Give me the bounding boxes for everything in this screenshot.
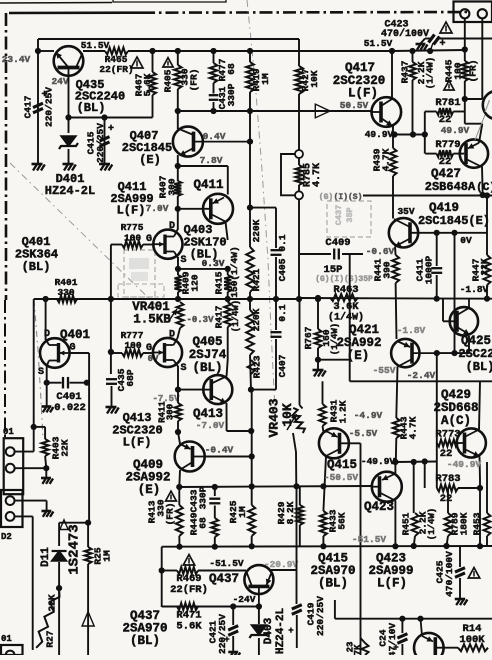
capacitor C417 <box>37 51 39 163</box>
transistor Q405 JFET <box>153 338 182 367</box>
svg-text:(FR): (FR) <box>468 60 479 83</box>
svg-text:220/25V: 220/25V <box>315 596 326 636</box>
svg-text:24V: 24V <box>51 76 68 87</box>
capacitor C24 <box>401 619 403 633</box>
svg-text:Q421: Q421 <box>349 323 379 337</box>
resistor R413 330 (FR) <box>178 487 180 505</box>
svg-text:22K: 22K <box>60 439 71 456</box>
svg-text:4.7K: 4.7K <box>381 148 392 171</box>
resistor R789 180K <box>447 490 449 513</box>
svg-text:(FR): (FR) <box>165 503 176 526</box>
warning triangle C423 <box>440 22 452 33</box>
capacitor C433 330P + R449 68 <box>214 487 216 496</box>
wire rail y462 <box>395 461 436 464</box>
resistor R471 5.6K <box>177 603 198 610</box>
warning triangle C425 <box>468 568 479 578</box>
wire Q401 source down <box>46 365 48 383</box>
svg-text:470/100V: 470/100V <box>444 551 455 597</box>
svg-text:-5.5V: -5.5V <box>349 428 378 439</box>
svg-text:Q437: Q437 <box>209 572 239 586</box>
svg-text:D: D <box>44 329 50 340</box>
svg-text:2SC1845(E): 2SC1845(E) <box>418 214 490 228</box>
warning triangle R413 <box>166 491 177 501</box>
ghost dashed box left <box>124 250 155 297</box>
resistor R447 22K <box>486 196 488 256</box>
wire Q403 source down <box>177 257 179 269</box>
svg-text:0.1: 0.1 <box>277 234 288 251</box>
node Q435 collector <box>65 114 71 120</box>
svg-text:49.9V: 49.9V <box>365 129 394 140</box>
svg-text:HZ24-2L: HZ24-2L <box>45 184 95 198</box>
svg-text:Q413: Q413 <box>193 407 223 421</box>
svg-text:-0.6V: -0.6V <box>366 246 395 257</box>
svg-text:R27: R27 <box>45 630 56 647</box>
wire rail y546 <box>162 545 492 548</box>
wire Q415 base col down <box>360 443 362 655</box>
connector box B <box>1 490 23 527</box>
svg-text:Q419: Q419 <box>429 201 459 215</box>
resistor R445 100 <box>464 50 466 62</box>
wire pin2 down <box>481 18 483 99</box>
svg-text:Q401: Q401 <box>60 328 90 342</box>
resistor R403 22K <box>34 426 45 428</box>
svg-text:1M: 1M <box>102 550 113 562</box>
warning triangle R445 <box>444 81 454 90</box>
svg-text:1.5KB: 1.5KB <box>133 313 171 327</box>
svg-text:D2: D2 <box>1 532 12 542</box>
svg-text:330P: 330P <box>226 83 237 106</box>
svg-text:23.4V: 23.4V <box>2 54 31 65</box>
transistor Q425 <box>450 307 478 335</box>
resistor R465 <box>105 48 128 55</box>
potentiometer VR403 <box>290 407 306 435</box>
svg-text:+: + <box>439 39 445 50</box>
ground R767 <box>313 369 324 372</box>
capacitor C401 0.022 <box>47 382 62 384</box>
svg-text:L(F): L(F) <box>117 204 146 218</box>
ground C415 <box>99 163 110 166</box>
svg-text:7.8V: 7.8V <box>200 155 223 166</box>
svg-text:R463: R463 <box>333 284 358 296</box>
wire Q417 emitter rail y134 <box>392 126 394 135</box>
resistor R417 <box>224 302 231 327</box>
resistor R477 68 <box>213 51 215 63</box>
svg-text:Q425: Q425 <box>461 334 491 348</box>
wire 51.5V rail left <box>38 50 54 52</box>
svg-text:5.6K: 5.6K <box>142 73 153 96</box>
svg-text:22: 22 <box>440 493 453 505</box>
wire Q403 drain up <box>177 209 179 230</box>
resistor R767 160 <box>317 298 319 329</box>
wire Q429 emitter down <box>479 457 482 481</box>
svg-text:300: 300 <box>166 404 176 420</box>
svg-text:G: G <box>69 343 75 354</box>
svg-text:L(F): L(F) <box>377 577 407 591</box>
svg-text:Q417: Q417 <box>345 61 375 75</box>
svg-text:R421: R421 <box>251 268 262 291</box>
svg-text:C405: C405 <box>277 258 288 281</box>
wire y166 rail to Q411 collector <box>178 165 228 167</box>
transistor Q403 JFET <box>153 230 182 259</box>
svg-text:Q423: Q423 <box>364 500 394 514</box>
capacitor C421 <box>232 607 234 626</box>
resistor R433 56K <box>322 510 324 512</box>
wire R439 column / Q419 collector <box>390 148 397 176</box>
resistor R469 22(FR) <box>162 570 177 572</box>
leader line 49.9 <box>475 115 485 140</box>
resistor R431 1.2K <box>322 381 324 404</box>
resistor R411 300 <box>177 390 179 403</box>
svg-text:68: 68 <box>226 63 237 75</box>
wire 51.5V rail middle <box>153 50 395 52</box>
svg-text:22K: 22K <box>479 258 490 275</box>
wire R773 left col <box>436 353 438 443</box>
node R405 top <box>175 48 181 54</box>
svg-text:-2.4V: -2.4V <box>407 370 436 381</box>
wire VR403 col <box>299 299 301 405</box>
svg-text:1M: 1M <box>260 73 271 85</box>
resistor R419 1M <box>249 51 251 62</box>
svg-text:R783: R783 <box>435 473 460 485</box>
svg-text:-1.8V: -1.8V <box>397 325 426 336</box>
svg-text:Q427: Q427 <box>431 167 461 181</box>
capacitor C415 <box>104 118 106 164</box>
svg-text:+: + <box>224 635 229 645</box>
svg-text:Q411: Q411 <box>193 178 223 192</box>
svg-text:R767: R767 <box>303 326 314 349</box>
svg-text:-4.9V: -4.9V <box>354 410 383 421</box>
svg-text:(1/4W): (1/4W) <box>427 508 437 540</box>
svg-text:(BL): (BL) <box>130 634 160 648</box>
wire mid rail y298 right <box>299 297 492 300</box>
svg-text:+: + <box>288 626 293 636</box>
svg-text:120: 120 <box>190 274 201 291</box>
transistor Q14 partial <box>414 633 444 660</box>
wire pin1 down <box>464 18 466 49</box>
svg-text:HZ24-2L: HZ24-2L <box>275 608 287 655</box>
svg-text:R417: R417 <box>214 305 225 328</box>
wire Q427 emitter top <box>479 124 482 143</box>
wire Q427 collector down <box>481 167 484 196</box>
svg-text:50.5V: 50.5V <box>340 100 369 111</box>
capacitor C435 68P <box>106 378 117 380</box>
svg-text:S: S <box>180 255 186 266</box>
wire y117 rail <box>69 117 153 119</box>
svg-text:0.1: 0.1 <box>277 304 288 321</box>
svg-text:2SJ74: 2SJ74 <box>189 348 227 362</box>
node R467 top <box>149 48 155 54</box>
potentiometer VR401 <box>177 302 184 328</box>
svg-text:150(1/4W): 150(1/4W) <box>229 246 240 297</box>
capacitor C411 1000P <box>436 233 438 266</box>
wire Q437 right to C419 col <box>271 569 297 571</box>
wire Q421 collector down <box>396 367 397 419</box>
svg-text:220/25V: 220/25V <box>44 87 55 127</box>
svg-text:7K: 7K <box>353 644 363 655</box>
svg-text:01: 01 <box>3 427 14 437</box>
resistor R423 220K <box>249 299 251 310</box>
svg-text:S: S <box>180 363 186 374</box>
wire R445 bottom to pin2 <box>465 98 483 100</box>
wire Q409 base rail right <box>205 456 252 458</box>
svg-text:C409: C409 <box>325 237 350 249</box>
svg-text:L(F): L(F) <box>348 87 378 101</box>
wire C409 right down to y381 <box>349 254 351 381</box>
svg-text:10K: 10K <box>309 70 320 87</box>
wire pinB2 down col <box>15 515 33 517</box>
wire Q429 collector up <box>479 381 480 429</box>
diode D401 zener <box>68 118 70 134</box>
svg-text:R775: R775 <box>121 222 144 233</box>
transistor Q427 <box>460 139 488 167</box>
resistor R437 2.2K <box>412 51 414 62</box>
svg-text:330P: 330P <box>198 486 209 509</box>
wire rail -24V y606 <box>162 606 259 608</box>
resistor R453 <box>486 462 488 513</box>
svg-text:68P: 68P <box>125 369 136 386</box>
wire Q407 emitter down <box>177 155 179 181</box>
resistor R401 330 <box>57 296 77 303</box>
svg-text:R453: R453 <box>472 512 483 535</box>
svg-text:G: G <box>146 343 152 354</box>
wire Q419 emitter down R441 <box>394 247 397 256</box>
svg-text:-55V: -55V <box>373 365 396 376</box>
svg-text:-24V: -24V <box>233 594 256 605</box>
node junction x38 y51 <box>35 48 41 54</box>
terminal R785 bottom <box>295 191 303 199</box>
resistor R463 3.6K <box>330 294 358 301</box>
wire Q401 drain up <box>45 299 47 340</box>
svg-text:3.6K: 3.6K <box>333 301 359 313</box>
wire VR403 col down / C419 <box>296 486 298 546</box>
node R401 left <box>43 296 49 302</box>
wire down to y456 rail <box>251 390 253 487</box>
wire Q413 base rail <box>178 389 204 391</box>
svg-text:(1/4W): (1/4W) <box>231 300 241 332</box>
wire y39 rail corner to R427 <box>298 39 300 66</box>
svg-text:1000P: 1000P <box>424 255 435 284</box>
svg-text:(1/4W): (1/4W) <box>426 57 436 89</box>
wire x33.7 col <box>33 299 35 452</box>
svg-text:35P: 35P <box>345 207 355 222</box>
resistor R425 1M <box>251 487 253 506</box>
wire Q417 collector up <box>391 51 393 99</box>
warning triangle R405 <box>163 58 173 67</box>
svg-text:C407: C407 <box>277 354 288 377</box>
svg-text:+: + <box>393 643 398 653</box>
svg-text:(BL): (BL) <box>77 101 106 115</box>
node C431 top <box>210 48 216 54</box>
svg-text:(E): (E) <box>139 153 161 167</box>
node R419 top <box>247 48 253 54</box>
ground C435 <box>106 406 117 409</box>
svg-text:(BL): (BL) <box>466 360 492 374</box>
connector box A <box>4 438 24 494</box>
svg-text:180K: 180K <box>459 512 470 535</box>
svg-text:A(C): A(C) <box>441 414 471 428</box>
wire corner x38 <box>37 39 39 51</box>
wire Q425 base from rail <box>443 320 449 322</box>
transistor Q417 <box>372 97 402 127</box>
node R775 col <box>108 296 114 302</box>
svg-text:D403: D403 <box>263 617 275 644</box>
transistor Q421 <box>391 339 419 367</box>
svg-text:D: D <box>169 330 175 341</box>
node C415 top <box>101 114 107 120</box>
signal arrow up on R25 col <box>82 612 94 626</box>
wire R443 col <box>393 418 400 438</box>
transistor Q409 <box>175 442 205 472</box>
svg-text:390: 390 <box>382 261 393 278</box>
svg-text:R415: R415 <box>214 271 225 294</box>
small arrow at D11 top <box>60 520 68 530</box>
transistor Q413 <box>203 375 232 404</box>
svg-text:5.6K: 5.6K <box>176 621 202 633</box>
svg-text:68: 68 <box>198 517 209 529</box>
svg-text:220/25V: 220/25V <box>95 123 106 163</box>
svg-text:220K: 220K <box>251 308 262 331</box>
wire y111 rail <box>178 110 372 112</box>
signal arrow on y111 rail <box>315 104 330 118</box>
svg-text:R405: R405 <box>163 69 174 92</box>
wire pinB1 to ground <box>15 500 47 502</box>
resistor R407 300 <box>174 181 181 196</box>
resistor R405 <box>177 51 179 65</box>
wire R789 top <box>424 462 426 489</box>
transistor Q429 <box>457 428 486 457</box>
wire R777 col down <box>110 299 112 374</box>
wire rail R465 to R467 node <box>128 50 153 52</box>
svg-text:2SB648A: 2SB648A <box>425 180 476 194</box>
svg-text:C437: C437 <box>334 205 344 225</box>
svg-text:(E): (E) <box>138 483 161 497</box>
wire top rail y38 <box>38 38 299 40</box>
svg-text:01: 01 <box>1 634 12 644</box>
svg-text:4.7K: 4.7K <box>312 163 323 187</box>
svg-text:0.4V: 0.4V <box>203 131 226 142</box>
svg-text:-0.4V: -0.4V <box>205 445 234 456</box>
svg-text:C417: C417 <box>23 95 34 118</box>
wire Q409 collector down <box>178 470 181 487</box>
wire rail y381 <box>350 380 492 382</box>
svg-text:Q429: Q429 <box>441 388 471 402</box>
transistor Q437 <box>244 565 273 594</box>
svg-text:D11: D11 <box>40 547 52 567</box>
top edge cut-off marks <box>0 2 112 5</box>
svg-text:300: 300 <box>167 178 178 195</box>
svg-text:35V: 35V <box>397 206 414 217</box>
wire Q415 collector down <box>323 456 326 511</box>
wire Q411 emitter down to R415 <box>225 221 227 240</box>
wire 51.5V rail to R465 <box>83 50 105 52</box>
wire R423/C407 join <box>251 389 276 391</box>
capacitor C425 470/100V <box>459 546 461 567</box>
svg-text:R437: R437 <box>400 60 411 83</box>
resistor R429 8.2K <box>299 486 301 505</box>
wire Q405 source down <box>177 366 179 390</box>
transistor Q415 <box>319 428 349 458</box>
diode D403 <box>258 607 260 625</box>
transistor Q423 <box>372 472 402 502</box>
wire Q413 emitter down <box>226 403 228 431</box>
svg-text:220/25V: 220/25V <box>217 614 228 654</box>
node Q407 base - R419 column <box>247 139 253 145</box>
wire pinA2 to R403 <box>15 467 47 469</box>
warning triangle near R465 <box>131 57 143 68</box>
node Q411 base <box>175 206 181 212</box>
resistor R785 4.7K <box>298 158 300 165</box>
svg-text:(BL): (BL) <box>22 260 51 274</box>
ground D401 <box>63 163 74 166</box>
svg-text:100: 100 <box>453 62 464 79</box>
diode D11 <box>58 523 60 546</box>
wire Q409 emitter up <box>178 432 180 444</box>
resistor R451 2.2K <box>413 462 415 513</box>
capacitor C405 0.1 <box>271 249 282 251</box>
svg-text:51.5V: 51.5V <box>364 38 393 49</box>
svg-text:-1.8V: -1.8V <box>460 284 489 295</box>
wire R421 col <box>249 208 251 247</box>
svg-text:1S2473: 1S2473 <box>67 524 83 574</box>
wire source rail to R415 <box>178 268 228 270</box>
wire VR401 bottom to Q405 drain <box>178 328 181 338</box>
wire mid rail y299 left <box>34 298 299 300</box>
transistor Q435 <box>54 46 84 76</box>
svg-text:49.9V: 49.9V <box>441 125 470 136</box>
wire Q413 collector up to R417 <box>227 360 228 377</box>
resistor R409 120 <box>177 269 179 275</box>
svg-text:8.2K: 8.2K <box>285 501 296 524</box>
svg-text:0.3V: 0.3V <box>202 258 225 269</box>
connector box C <box>1 645 23 655</box>
warning triangle R469 <box>183 555 194 565</box>
wire R469 left col <box>161 547 163 607</box>
frame dash-dot left border <box>5 13 8 300</box>
transistor Q433 partial right edge <box>483 91 492 119</box>
wire Q407 collector <box>177 111 179 129</box>
capacitor C431 330P <box>213 83 215 94</box>
svg-text:0.022: 0.022 <box>54 402 86 414</box>
svg-text:330: 330 <box>57 287 74 298</box>
resistor R25 1M <box>87 523 89 547</box>
svg-text:-49.9V: -49.9V <box>361 456 396 467</box>
transistor Q419 <box>389 218 418 247</box>
resistor R427 10K <box>295 66 303 94</box>
svg-text:22(FR): 22(FR) <box>99 64 133 75</box>
svg-text:-51.5V: -51.5V <box>209 558 244 569</box>
wire Q423 collector down <box>394 501 396 547</box>
wire Q415 emitter up <box>324 431 328 434</box>
ghost dashed box right <box>327 201 371 237</box>
wire Q421 base rail <box>434 350 440 356</box>
svg-text:1.2K: 1.2K <box>338 400 349 423</box>
frame dash-dot top border <box>9 11 142 14</box>
svg-text:220K: 220K <box>251 219 262 242</box>
svg-text:2SD668: 2SD668 <box>433 401 478 415</box>
wire R785 bypass loop <box>281 154 296 195</box>
wire Q423 emitter up <box>394 462 396 474</box>
svg-text:(C): (C) <box>476 182 492 194</box>
connector box top right <box>454 2 492 23</box>
svg-text:22(FR): 22(FR) <box>170 584 208 596</box>
svg-text:S: S <box>38 367 44 378</box>
node C405 wire <box>250 207 276 209</box>
svg-text:Q415: Q415 <box>327 458 357 472</box>
resistor R415 <box>224 275 231 292</box>
svg-text:(E): (E) <box>347 349 370 363</box>
svg-text:1M: 1M <box>237 506 248 518</box>
svg-text:4.7K: 4.7K <box>408 416 419 439</box>
